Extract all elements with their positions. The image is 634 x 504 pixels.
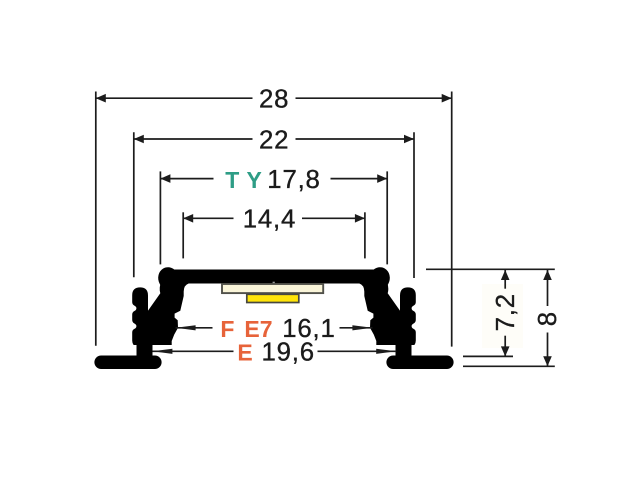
extension line left of dim 22 (133, 132, 135, 277)
svg-text:22: 22 (259, 126, 289, 154)
profile right half (mirror) (360, 264, 454, 369)
end blob left (155, 264, 182, 292)
text background 7,2 (495, 289, 516, 336)
arrowhead left dim 28 (96, 94, 106, 103)
dimension line 28 (96, 97, 452, 99)
dimension line 8 vertical (547, 270, 549, 366)
LED emitter (yellow) (247, 294, 299, 302)
dimension line 22 (134, 138, 414, 140)
svg-text:8: 8 (534, 312, 562, 326)
profile left half group (94, 264, 188, 369)
dimension line 17,8 (160, 178, 387, 180)
LED strip PCB (cream) (222, 284, 323, 293)
svg-text:14,4: 14,4 (243, 206, 296, 234)
dimension line F E7 16,1 (176, 327, 373, 329)
arrowhead right dim 22 (404, 135, 414, 144)
arrowhead up 8 (543, 270, 552, 280)
arrowhead right dim 17,8 (377, 174, 387, 183)
arrowhead up 7,2 (501, 270, 510, 280)
arrowhead down 7,2 (501, 346, 510, 356)
reference line top (profile top plane) (426, 268, 555, 270)
extension line right of dim 28 (451, 92, 453, 347)
reference line middle (foot top plane) (463, 355, 513, 357)
extension line right of dim 22 (413, 132, 415, 278)
arrowhead right dim 14,4 (355, 214, 365, 223)
extension line right of dim 14,4 (364, 212, 366, 258)
slim arrowhead right E (376, 349, 396, 354)
arrowhead down 8 (543, 356, 552, 366)
slim arrowhead right F E7 (352, 325, 372, 330)
text background 14,4 (234, 208, 303, 229)
center tick mark on bar (273, 282, 275, 284)
arrowhead left dim 17,8 (160, 174, 170, 183)
slim arrowhead left F E7 (176, 325, 196, 330)
extension line left of dim 14,4 (182, 212, 184, 258)
serrated spring left (132, 287, 148, 345)
svg-text:T Y: T Y (225, 167, 262, 193)
reference line bottom (profile bottom plane) (463, 365, 555, 367)
stem left (137, 343, 153, 358)
svg-text:28: 28 (259, 86, 289, 114)
text background 28 (253, 89, 296, 109)
arrowhead left dim 22 (134, 135, 144, 144)
extension line right of dim 17,8 (386, 171, 388, 264)
text background 22 (253, 130, 296, 150)
dimension line E 19,6 (152, 350, 396, 352)
svg-text:E: E (237, 340, 252, 366)
extension line left of dim 17,8 (159, 171, 161, 264)
svg-text:7,2: 7,2 (492, 293, 520, 331)
extension line left of dim 28 (95, 92, 97, 346)
slim arrowhead left E (152, 349, 172, 354)
text background E 19,6 (234, 341, 318, 362)
text background F E7 16,1 (213, 318, 340, 339)
arrowhead right dim 28 (442, 94, 452, 103)
cream halo behind 7,2 (482, 284, 523, 348)
text background 8 (538, 306, 558, 333)
arrowhead left dim 14,4 (183, 214, 193, 223)
text background T Y 17,8 (214, 169, 331, 190)
clamp arm left (148, 271, 189, 345)
dimension line 7,2 vertical (504, 270, 506, 356)
svg-text:17,8: 17,8 (267, 166, 320, 194)
dimension line 14,4 (183, 217, 365, 219)
svg-text:19,6: 19,6 (262, 339, 315, 367)
aluminium profile: top bar (168, 270, 380, 284)
foot left (94, 356, 161, 370)
